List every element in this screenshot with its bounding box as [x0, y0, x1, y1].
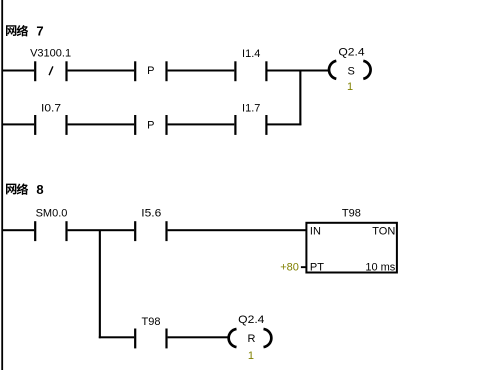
svg-text:I0.7: I0.7 — [41, 103, 61, 115]
left power rail — [1, 0, 3, 370]
wire T98 to coil Q2.4 R — [168, 336, 230, 338]
wire rail to contact V3100.1 — [2, 70, 34, 72]
coil Q2.4 R left arc — [229, 329, 237, 347]
contact P (positive edge) row2 — [134, 115, 167, 135]
contact P (positive edge) row1 — [134, 61, 167, 81]
svg-text:T98: T98 — [142, 316, 161, 328]
svg-text:R: R — [248, 333, 256, 345]
contact SM0.0 — [34, 221, 68, 241]
svg-text:+80: +80 — [280, 261, 299, 273]
svg-text:7: 7 — [36, 24, 43, 39]
svg-text:Q2.4: Q2.4 — [238, 314, 264, 326]
svg-text:I5.6: I5.6 — [141, 207, 161, 219]
contact I0.7 — [34, 115, 68, 135]
svg-text:PT: PT — [310, 262, 324, 274]
svg-text:P: P — [147, 65, 154, 77]
svg-text:10 ms: 10 ms — [365, 262, 395, 274]
network 7 title 网络 7 — [6, 24, 44, 39]
contact I1.7 — [234, 115, 267, 135]
svg-text:SM0.0: SM0.0 — [36, 207, 68, 219]
svg-text:1: 1 — [347, 81, 353, 93]
coil Q2.4 R right arc — [264, 329, 272, 347]
svg-text:IN: IN — [310, 225, 321, 237]
contact I5.6 — [134, 221, 167, 241]
wire P to contact I1.4 — [168, 70, 235, 72]
contact V3100.1 (normally closed) — [34, 61, 68, 81]
wire P to contact I1.7 — [168, 123, 235, 125]
wire I5.6 to timer box IN — [168, 229, 307, 231]
svg-text:Q2.4: Q2.4 — [338, 47, 364, 59]
wire rail to contact I0.7 — [2, 123, 34, 125]
svg-text:I1.7: I1.7 — [242, 103, 260, 115]
wire I1.4 to coil Q2.4 S — [268, 70, 330, 72]
svg-text:S: S — [348, 66, 355, 78]
coil Q2.4 S left arc — [329, 61, 336, 79]
junction node: branch join network 7 — [299, 70, 301, 125]
svg-text:T98: T98 — [342, 208, 361, 220]
PT pin stub wire — [301, 266, 306, 268]
contact T98 — [134, 329, 167, 349]
wire rail to contact SM0.0 — [2, 229, 34, 231]
network 8 title 网络 8 — [6, 182, 44, 197]
svg-text:V3100.1: V3100.1 — [30, 48, 71, 60]
wire V3100.1 to P contact — [68, 70, 135, 72]
wire SM0.0 to contact I5.6 — [68, 229, 135, 231]
contact I1.4 — [234, 61, 267, 81]
wire junction to contact T98 — [99, 336, 134, 338]
svg-text:TON: TON — [372, 225, 395, 237]
svg-text:I1.4: I1.4 — [242, 48, 260, 60]
timer box T98 TON outline — [306, 223, 397, 273]
svg-text:P: P — [147, 119, 154, 131]
junction node: branch drop network 8 — [99, 230, 101, 338]
svg-text:1: 1 — [248, 350, 254, 362]
wire I0.7 to P contact row2 — [68, 123, 135, 125]
coil Q2.4 S right arc — [363, 61, 370, 79]
svg-text:8: 8 — [36, 182, 43, 197]
wire I1.7 to junction — [268, 123, 302, 125]
